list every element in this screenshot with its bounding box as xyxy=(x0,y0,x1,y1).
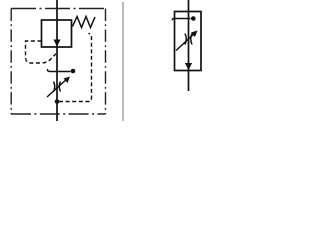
node (junction dot on tap line) xyxy=(71,69,76,74)
node (junction dot, downstream tap) xyxy=(55,99,60,104)
throttle (variable restrictor arcs) xyxy=(54,82,61,92)
pilot line (dashed, left sensing loop) xyxy=(26,41,57,63)
enclosure box (dash-dot assembly boundary), top edge xyxy=(11,8,106,10)
pilot line (dashed, right to spring chamber) xyxy=(59,33,92,102)
table divider line xyxy=(122,2,124,121)
spring xyxy=(73,17,96,28)
flow arrow (down) inside valve xyxy=(53,40,60,47)
tap line with node dot xyxy=(47,69,70,72)
wire: right symbol line xyxy=(188,0,190,91)
tap line with node dot (right symbol) xyxy=(172,19,190,21)
wire: main supply line P xyxy=(56,0,58,121)
valve body (pressure valve square) xyxy=(42,20,72,47)
enclosure box, bottom edge xyxy=(11,113,106,115)
enclosure box, right edge xyxy=(105,9,107,115)
throttle adjustment arrow (right symbol) xyxy=(176,33,196,51)
throttle adjustment arrow xyxy=(47,78,68,97)
enclosure box, left edge xyxy=(10,9,12,115)
throttle (variable restrictor arcs, right symbol) xyxy=(185,34,192,45)
flow arrow (down, at rectangle bottom) xyxy=(185,63,192,70)
node (junction dot, right symbol) xyxy=(191,16,196,21)
flow control valve body (rectangle) xyxy=(175,12,202,71)
